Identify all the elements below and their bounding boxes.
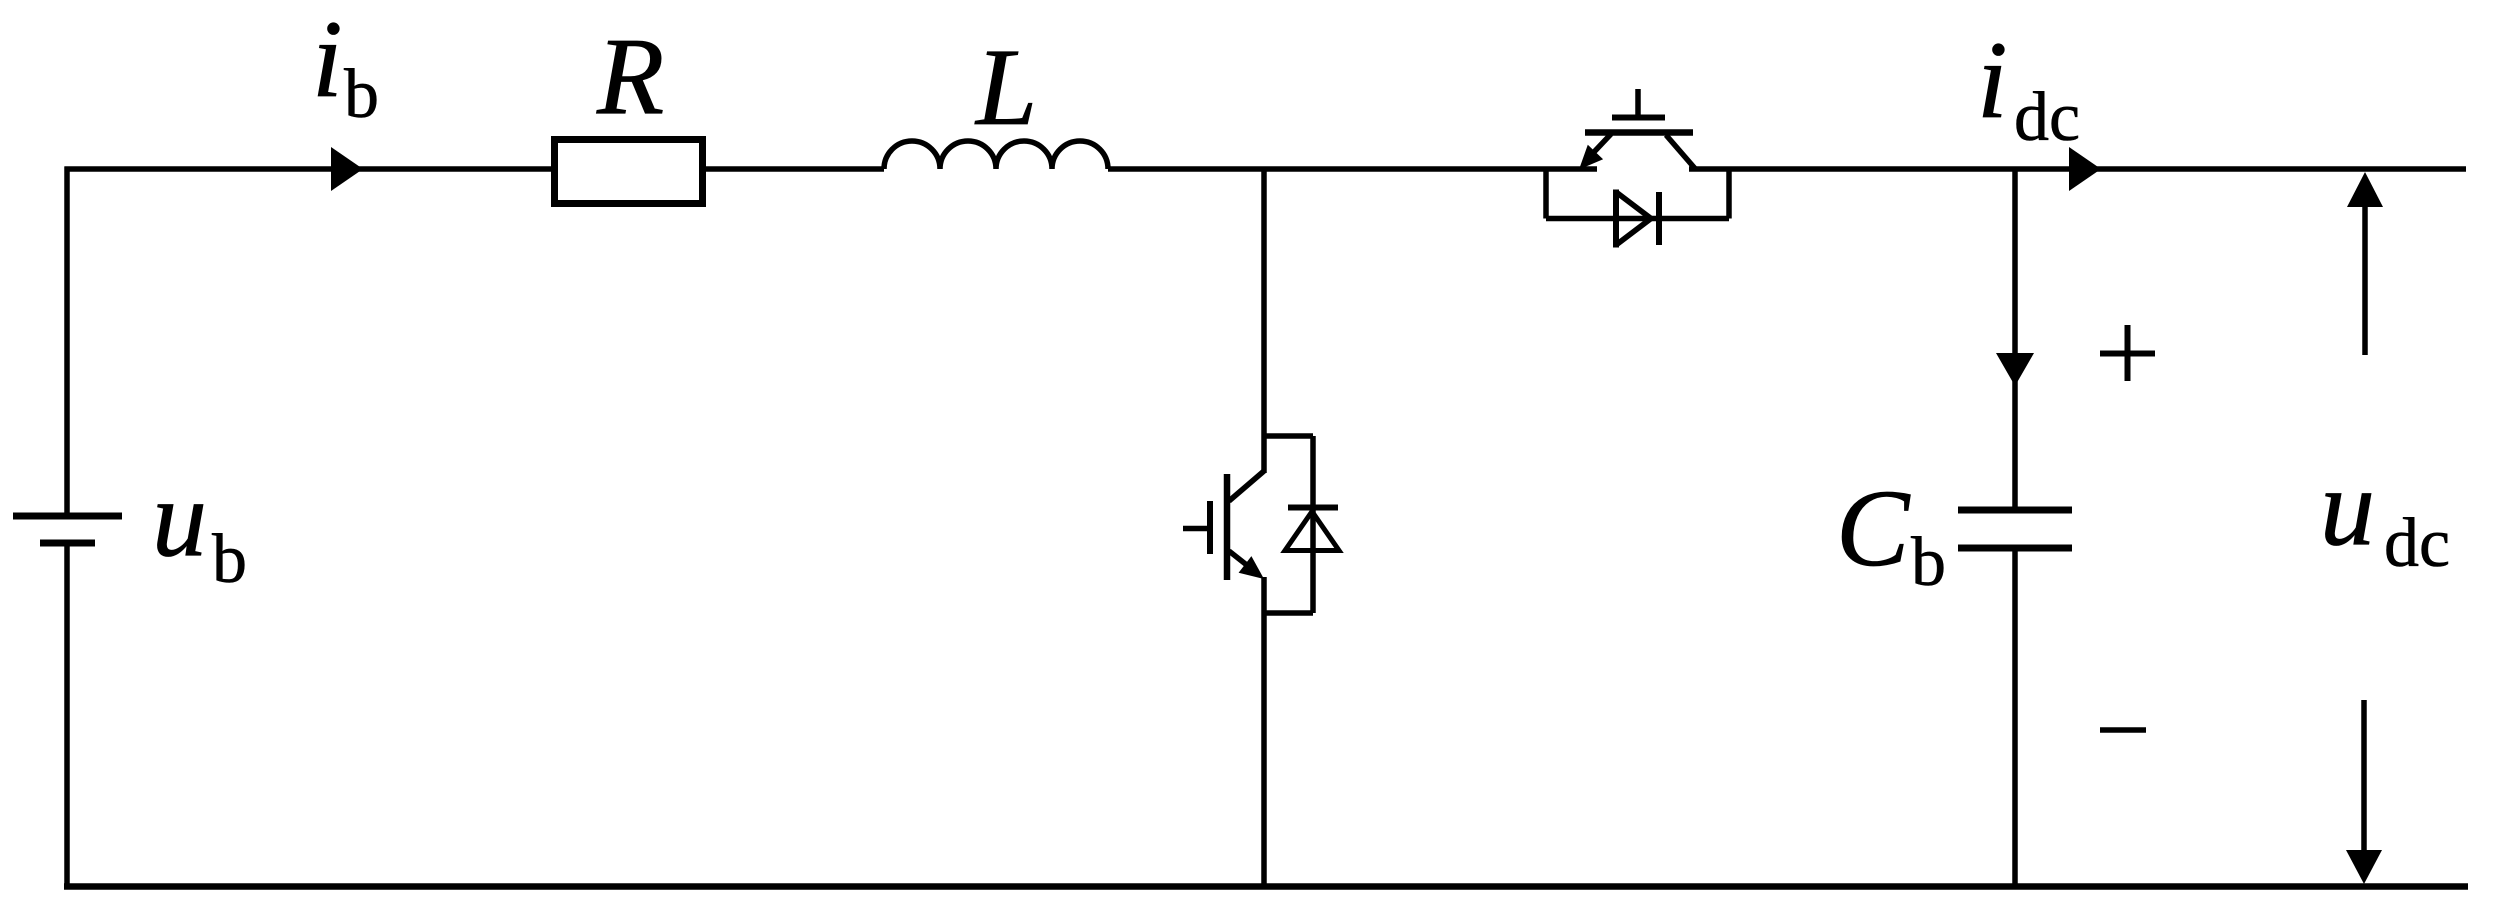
svg-text:R: R — [596, 15, 664, 137]
svg-text:i: i — [1977, 19, 2008, 141]
arrow i_b current direction — [331, 147, 363, 191]
wire u_dc upper arrow shaft — [2362, 205, 2368, 355]
diode D2 triangle (upper antiparallel diode) — [1616, 192, 1651, 245]
svg-text:u: u — [2320, 446, 2375, 568]
wire capacitor branch upper — [2012, 169, 2018, 508]
arrow capacitor branch current direction — [1996, 353, 2034, 386]
diode D2 anode bar (upper antiparallel diode) — [1613, 190, 1619, 248]
wire upper diode branch left jog — [1543, 169, 1549, 219]
transistor Q2 upper IGBT collector diagonal — [1666, 135, 1695, 169]
battery U_b short plate — [40, 540, 95, 547]
svg-text:b: b — [344, 56, 379, 133]
transistor Q1 lower IGBT emitter diagonal — [1229, 551, 1248, 566]
transistor Q1 lower IGBT body bar — [1224, 474, 1231, 580]
svg-text:L: L — [974, 26, 1037, 148]
arrow u_dc down arrowhead — [2346, 850, 2382, 884]
wire u_dc lower arrow shaft — [2361, 700, 2367, 850]
transistor Q2 upper IGBT gate lead — [1635, 89, 1641, 115]
transistor Q1 lower IGBT collector diagonal — [1229, 471, 1264, 501]
wire top bus middle segment (inductor to node) — [1108, 166, 1597, 172]
diode D1 cathode bar (lower antiparallel diode) — [1288, 505, 1338, 511]
svg-text:b: b — [1911, 524, 1946, 601]
wire lower IGBT top jog to diode branch — [1264, 433, 1313, 439]
svg-text:C: C — [1836, 467, 1911, 589]
svg-text:b: b — [212, 521, 247, 598]
arrow u_dc up arrowhead — [2347, 172, 2383, 207]
wire lower diode branch vertical — [1310, 436, 1316, 613]
minus sign (capacitor polarity) — [2100, 727, 2146, 733]
transistor Q1 lower IGBT gate lead — [1183, 526, 1207, 532]
svg-text:dc: dc — [2014, 79, 2080, 156]
svg-text:i: i — [312, 0, 343, 120]
arrow Q2 emitter arrowhead — [1579, 145, 1603, 170]
resistor R body — [555, 140, 703, 204]
wire left vertical upper (battery positive lead) — [64, 167, 70, 515]
svg-text:u: u — [152, 457, 207, 579]
transistor Q1 lower IGBT gate bar — [1207, 501, 1213, 554]
transistor Q2 upper IGBT gate bar — [1612, 115, 1665, 121]
battery U_b long plate — [13, 513, 122, 520]
wire top bus right segment — [1689, 166, 2466, 172]
capacitor C_b top plate — [1958, 507, 2072, 514]
svg-text:dc: dc — [2384, 505, 2450, 582]
wire upper diode branch horizontal — [1546, 216, 1729, 222]
wire node vertical (midpoint leg down to lower IGBT collector) — [1261, 169, 1267, 473]
wire capacitor branch lower — [2012, 551, 2018, 886]
transistor Q2 upper IGBT emitter diagonal — [1594, 134, 1611, 152]
arrow Q1 emitter arrowhead — [1239, 556, 1264, 579]
wire top bus left segment — [65, 166, 885, 172]
plus sign (capacitor polarity) — [2100, 325, 2155, 381]
inductor L winding — [884, 141, 1108, 169]
wire upper diode branch right jog — [1726, 169, 1732, 219]
transistor Q2 upper IGBT body bar — [1585, 129, 1693, 136]
wire lower IGBT bottom jog from diode branch — [1264, 610, 1313, 616]
diode D1 triangle (lower antiparallel diode) — [1285, 512, 1339, 551]
diode D2 cathode bar (upper antiparallel diode) — [1656, 192, 1662, 245]
wire bottom bus — [64, 883, 2468, 890]
wire left vertical lower (battery negative lead) — [64, 545, 70, 889]
capacitor C_b bottom plate — [1958, 545, 2072, 552]
wire lower IGBT emitter vertical down to bottom bus — [1261, 577, 1267, 886]
arrow i_dc current direction — [2069, 147, 2101, 191]
